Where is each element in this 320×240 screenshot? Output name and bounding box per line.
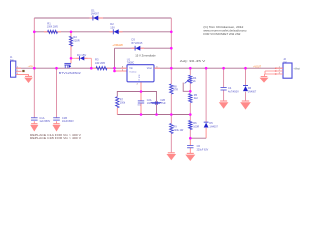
svg-text:1uF/450V: 1uF/450V — [39, 120, 50, 123]
wire pot column top — [189, 68, 191, 75]
junction at (156.5,114.5) — [155, 113, 158, 116]
wire +VRAW drop x114.5 — [114, 48, 116, 71]
wire D5 column upper — [205, 68, 207, 122]
ground at R9 — [168, 152, 175, 154]
svg-text:C6: C6 — [197, 144, 201, 148]
pin J1-1 stub — [16, 67, 21, 69]
svg-text:R8: R8 — [173, 84, 177, 88]
resistor R9 — [170, 124, 173, 134]
svg-text:C1B: C1B — [62, 116, 67, 120]
svg-text:Adj: 30-45 V: Adj: 30-45 V — [180, 59, 206, 63]
svg-text:10uF: 10uF — [147, 102, 153, 105]
svg-text:J1: J1 — [10, 57, 13, 59]
transistor Q1 MOSFET — [70, 58, 72, 63]
junction at (206.1,68.2) — [205, 67, 208, 70]
svg-text:FOR VO=MOSFET 2N2 2N2: FOR VO=MOSFET 2N2 2N2 — [203, 33, 241, 36]
wire main rail right of IC — [154, 67, 283, 69]
svg-text:R1: R1 — [47, 21, 51, 25]
svg-text:D2: D2 — [110, 22, 114, 26]
pin J2-3 lead — [265, 73, 283, 75]
svg-text:C4: C4 — [228, 86, 232, 90]
diode D6 — [243, 85, 248, 87]
svg-text:7808C: 7808C — [127, 62, 135, 65]
junction at (141,91.5) — [140, 90, 143, 93]
svg-text:D3: D3 — [132, 38, 136, 42]
capacitor C1B — [53, 117, 60, 119]
wire R7 bottom stub — [116, 108, 118, 115]
svg-text:2: 2 — [137, 83, 139, 85]
wire right vertical riser x171 upper — [170, 18, 172, 84]
svg-text:www.neues-mosfet.de/audio-psu: www.neues-mosfet.de/audio-psu — [203, 30, 247, 33]
capacitor C1A — [31, 117, 38, 119]
svg-text:D4 15V: D4 15V — [77, 54, 87, 57]
wire gate loop horizontal y58 — [71, 57, 91, 59]
svg-text:47R: 47R — [173, 89, 178, 92]
svg-text:2k2: 2k2 — [194, 97, 199, 100]
wire C6 ground stem — [189, 148, 191, 153]
svg-text:D5: D5 — [209, 121, 213, 125]
ground at C1B — [53, 123, 59, 125]
wire C1A ground stem — [33, 121, 35, 123]
wire main rail left of IC — [16, 67, 127, 69]
svg-text:C2A: C2A — [147, 99, 152, 102]
capacitor C2A inline — [151, 102, 162, 103]
junction at (245.5,68.2) — [244, 67, 247, 70]
wire R6 to node — [189, 130, 191, 139]
wire node to C6 — [189, 138, 191, 145]
junction at (71,58.3) — [70, 57, 73, 60]
svg-text:+VRAW: +VRAW — [112, 44, 123, 47]
wire bottom rail to R6 — [189, 115, 191, 121]
wire R2 column — [70, 32, 72, 59]
wire second rail — [34, 31, 171, 33]
pin J2-1 lead — [276, 67, 283, 69]
junction at (190.3,68.2) — [189, 67, 192, 70]
svg-text:2: 2 — [17, 70, 18, 72]
junction at (114.5,68.2) — [113, 67, 116, 70]
svg-text:220k 1W: 220k 1W — [173, 129, 184, 132]
wire top rail — [34, 17, 171, 19]
svg-text:R6: R6 — [193, 121, 197, 125]
svg-text:15 V Zenerdiode: 15 V Zenerdiode — [135, 55, 156, 58]
svg-text:BTV12N4502: BTV12N4502 — [59, 71, 82, 75]
svg-text:1: 1 — [279, 67, 280, 69]
junction at (34.3,68.2) — [33, 67, 36, 70]
wire C1B ground stem — [56, 121, 58, 123]
svg-text:2: 2 — [279, 70, 280, 72]
svg-text:+Vout: +Vout — [293, 68, 300, 71]
junction at (171.3,114.5) — [170, 113, 173, 116]
diode D2 — [110, 31, 114, 33]
wire D6 column — [245, 68, 247, 100]
wire D5 bottom — [205, 128, 207, 138]
svg-text:3: 3 — [279, 73, 280, 75]
resistor R8 — [170, 84, 173, 94]
wire x171 between R8 and R9 — [170, 94, 172, 124]
svg-text:1: 1 — [17, 67, 18, 69]
no-connect square on J1 pin 2 — [22, 70, 24, 72]
wire left vertical riser x34 — [33, 18, 35, 117]
diode D5 — [204, 121, 209, 123]
ground at C4 — [220, 100, 227, 102]
svg-text:J2: J2 — [283, 58, 286, 61]
junction at (190.3,91.3) — [189, 90, 192, 93]
svg-text:R5: R5 — [194, 93, 198, 97]
capacitor C5 — [138, 100, 144, 102]
svg-text:+VIN: +VIN — [28, 66, 34, 68]
ground at D6 — [242, 100, 249, 102]
svg-text:Vin: Vin — [129, 67, 133, 70]
wire filter network bottom rail — [117, 114, 190, 116]
junction at (190.3,138.2) — [189, 137, 192, 140]
wire C5 column — [140, 92, 142, 115]
svg-text:1N4007: 1N4007 — [209, 125, 218, 128]
pin J1-3 stub — [16, 75, 29, 77]
svg-text:C1A: C1A — [39, 116, 44, 120]
connector J2 — [283, 63, 292, 78]
junction at (34.3,31.8) — [33, 31, 36, 34]
svg-text:Vsense: Vsense — [129, 71, 137, 73]
wire R5 to bottom rail — [189, 103, 191, 115]
wire C1B column — [56, 68, 58, 117]
junction at (71,31.8) — [70, 31, 73, 34]
wire C4 column — [223, 68, 225, 100]
svg-text:R7: R7 — [120, 97, 124, 101]
junction at (91.3,68.2) — [90, 67, 93, 70]
ground at C6 — [187, 152, 194, 154]
svg-text:U1: U1 — [127, 58, 131, 62]
junction at (171.3,48.2) — [170, 47, 173, 50]
svg-text:Out: Out — [283, 61, 287, 64]
wire x171 to ground — [170, 134, 172, 153]
pin J2-2 lead — [265, 70, 283, 72]
svg-text:D6: D6 — [248, 86, 252, 90]
junction at (56.5,68.2) — [55, 67, 58, 70]
junction at (114.5,71) — [113, 70, 116, 73]
svg-text:R9: R9 — [173, 125, 177, 129]
svg-text:47uF: 47uF — [160, 102, 166, 105]
pin leads U1 — [121, 67, 127, 69]
wire filter network top rail — [117, 92, 156, 115]
junction at (223.6,68.2) — [222, 67, 225, 70]
wire IC ground pin drop — [140, 82, 142, 92]
resistor R5 — [189, 94, 192, 103]
svg-text:220uF 63V: 220uF 63V — [197, 148, 209, 151]
svg-text:100k: 100k — [120, 102, 126, 105]
svg-text:(C) Tom Christiansen, 2012: (C) Tom Christiansen, 2012 — [203, 26, 244, 29]
wire D5 to R6 node — [190, 137, 206, 139]
svg-text:1N4007: 1N4007 — [248, 90, 257, 93]
ground at J2 — [261, 76, 268, 78]
capacitor C6 — [187, 145, 193, 147]
wire pot to R5 — [189, 83, 191, 93]
diode D3 — [132, 47, 135, 49]
ground at J1 — [25, 75, 32, 77]
pin J1-2 stub — [16, 70, 22, 72]
potentiometer R4 — [189, 75, 192, 83]
resistor R3 — [96, 67, 107, 70]
diode D1 — [90, 17, 93, 19]
resistor R2 — [69, 36, 72, 46]
wire J2 ground stem — [264, 71, 266, 74]
svg-text:10uF/450V: 10uF/450V — [62, 120, 74, 123]
svg-text:REPLACE C1A FOR Vin > 400 V: REPLACE C1A FOR Vin > 400 V — [30, 134, 82, 137]
junction at (171.3,31.8) — [170, 31, 173, 34]
junction at (171.3,68.2) — [170, 67, 173, 70]
junction at (141,114.5) — [140, 113, 143, 116]
wire gate loop drop x91 — [90, 58, 92, 68]
resistor R7 — [116, 97, 119, 108]
ground at C1A — [31, 123, 37, 125]
svg-text:R2: R2 — [73, 35, 77, 39]
svg-text:D1: D1 — [91, 9, 95, 13]
resistor R1 — [48, 30, 58, 33]
wire pot wiper link — [183, 83, 190, 92]
svg-text:BYV26/15: BYV26/15 — [132, 42, 143, 45]
svg-text:R4: R4 — [193, 76, 197, 80]
capacitor C4 — [221, 87, 227, 89]
diode D4 — [77, 57, 80, 59]
svg-text:100R: 100R — [193, 125, 199, 128]
svg-text:C2B: C2B — [160, 99, 165, 102]
junction at (190.3,114.5) — [189, 113, 192, 116]
node +VRAW rail y48 — [115, 47, 172, 49]
resistor R6 — [189, 121, 192, 130]
wire IC pin2 feed — [115, 70, 128, 72]
op-amp U1 regulator box — [127, 65, 154, 82]
svg-text:REPLACE C1B FOR Vin > 400 V: REPLACE C1B FOR Vin > 400 V — [30, 137, 82, 140]
svg-text:R3: R3 — [95, 58, 99, 62]
svg-text:2k: 2k — [193, 80, 196, 83]
svg-text:4u7/450V: 4u7/450V — [228, 90, 239, 93]
svg-text:Vout: Vout — [147, 67, 152, 70]
svg-text:3: 3 — [17, 73, 18, 75]
connector J1 — [11, 61, 16, 77]
svg-text:+VOUT: +VOUT — [253, 67, 261, 69]
